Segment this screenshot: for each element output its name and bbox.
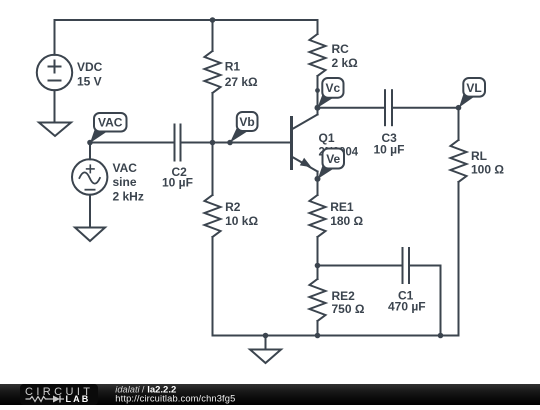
node dot RC lead endpoint — [315, 88, 320, 93]
node dot collector junction Vc — [315, 105, 321, 111]
label RL value — [471, 149, 504, 177]
svg-text:Vb: Vb — [239, 115, 254, 129]
svg-text:2 kΩ: 2 kΩ — [332, 56, 359, 70]
wire R2 to bottom rail — [212, 237, 214, 336]
svg-text:VDC: VDC — [77, 60, 103, 74]
svg-text:10 µF: 10 µF — [162, 176, 193, 190]
wire RL to bottom rail — [458, 182, 460, 336]
ground (below VAC) — [75, 228, 105, 242]
svg-text:2 kHz: 2 kHz — [113, 189, 144, 203]
wire RL top lead — [458, 108, 460, 140]
resistor RC — [310, 34, 326, 76]
label RC value — [332, 42, 359, 70]
svg-text:10 µF: 10 µF — [374, 143, 405, 157]
label RE2 value — [332, 289, 365, 316]
resistor RE1 — [310, 195, 326, 237]
node flag VAC — [90, 113, 127, 143]
svg-text:27 kΩ: 27 kΩ — [225, 75, 258, 89]
svg-text:10 kΩ: 10 kΩ — [225, 214, 258, 228]
node flag Ve — [318, 149, 344, 179]
CircuitLab logo text — [25, 386, 93, 398]
node dot RE1/RE2/C1 junction — [315, 263, 321, 269]
capacitor C1 — [403, 248, 410, 283]
svg-text:R2: R2 — [225, 200, 241, 214]
node flag Vb — [230, 112, 258, 143]
svg-text:sine: sine — [113, 175, 137, 189]
svg-text:Ve: Ve — [326, 152, 340, 166]
svg-text:RE2: RE2 — [332, 289, 356, 303]
wire VDC top lead — [54, 20, 56, 55]
wire bottom rail — [213, 335, 459, 337]
transistor Q1 2N3904 — [292, 115, 318, 172]
node dot bottom rail C1 — [438, 333, 444, 339]
svg-text:http://circuitlab.com/chn3fg5: http://circuitlab.com/chn3fg5 — [115, 394, 235, 404]
wire RE2 top lead — [317, 266, 319, 280]
wire VDC to ground — [54, 90, 56, 122]
footer credit line — [115, 385, 176, 396]
voltage source VAC sine — [72, 159, 107, 194]
svg-text:RL: RL — [471, 149, 487, 163]
wire collector to C3 — [318, 107, 385, 109]
svg-text:RE1: RE1 — [330, 200, 354, 214]
svg-text:470 µF: 470 µF — [388, 300, 426, 314]
wire R2 top lead — [212, 143, 214, 196]
wire C3 to VL node — [392, 107, 459, 109]
node dot C2/R1/R2 junction — [210, 140, 216, 146]
resistor R2 — [205, 195, 221, 237]
svg-text:R1: R1 — [225, 59, 241, 73]
svg-text:750 Ω: 750 Ω — [332, 302, 365, 316]
capacitor C3 — [385, 90, 392, 125]
node dot bottom rail RE2 — [315, 333, 321, 339]
svg-text:Vc: Vc — [326, 81, 341, 95]
node dot VAC — [87, 140, 93, 146]
wire ground stem bottom rail — [265, 336, 267, 350]
wire emitter to RE1 — [317, 172, 319, 196]
label VDC value — [77, 60, 103, 88]
capacitor C2 — [175, 125, 181, 161]
ground (below VDC) — [39, 123, 71, 137]
svg-text:100 Ω: 100 Ω — [471, 163, 504, 177]
wire C1 to bottom rail — [440, 266, 442, 336]
node flag VL — [459, 78, 485, 108]
wire VAC source top lead — [89, 143, 91, 160]
wire C1 right lead — [409, 265, 441, 267]
wire RE1 to junction — [317, 237, 319, 266]
wire R1 top lead — [212, 20, 214, 51]
CircuitLab logo diode symbol — [48, 396, 64, 403]
wire C2 to Vb junction and base of Q1 — [182, 142, 292, 144]
label Q1 value — [319, 131, 359, 158]
wire RC bottom to collector — [317, 76, 319, 115]
svg-text:VAC: VAC — [98, 116, 123, 130]
svg-text:Q1: Q1 — [319, 131, 335, 145]
wire R1 bottom lead — [212, 93, 214, 143]
resistor RE2 — [310, 279, 326, 321]
wire top rail — [55, 19, 318, 21]
voltage source VDC — [37, 55, 72, 90]
svg-text:LAB: LAB — [66, 394, 91, 404]
wire RE2 to bottom rail — [317, 321, 319, 336]
wire VAC node to C2 — [90, 142, 174, 144]
node dot top rail R1 — [210, 17, 216, 23]
wire RC top lead — [317, 20, 319, 34]
resistor RL — [451, 140, 467, 182]
label R2 value — [225, 200, 258, 228]
node dot bottom rail ground — [263, 333, 269, 339]
resistor R1 — [205, 51, 221, 93]
label R1 value — [225, 59, 258, 88]
svg-text:VL: VL — [466, 81, 481, 95]
node dot Vb anchor — [227, 140, 233, 146]
label VAC value — [113, 161, 144, 203]
label C2 value — [162, 165, 193, 190]
svg-text:RC: RC — [332, 42, 350, 56]
CircuitLab logo resistor squiggle — [26, 397, 49, 402]
node dot VL — [456, 105, 462, 111]
footer bar — [0, 384, 540, 405]
svg-text:VAC: VAC — [113, 161, 138, 175]
wire VAC source to ground — [89, 195, 91, 228]
label C1 value — [388, 289, 426, 314]
svg-text:180 Ω: 180 Ω — [330, 214, 363, 228]
node dot emitter Ve anchor — [315, 176, 321, 182]
wire junction to C1 — [318, 265, 403, 267]
node flag Vc — [318, 78, 344, 108]
label RE1 value — [330, 200, 363, 228]
label C3 value — [374, 131, 405, 157]
ground (bottom rail) — [250, 350, 281, 364]
svg-text:15 V: 15 V — [77, 74, 102, 88]
